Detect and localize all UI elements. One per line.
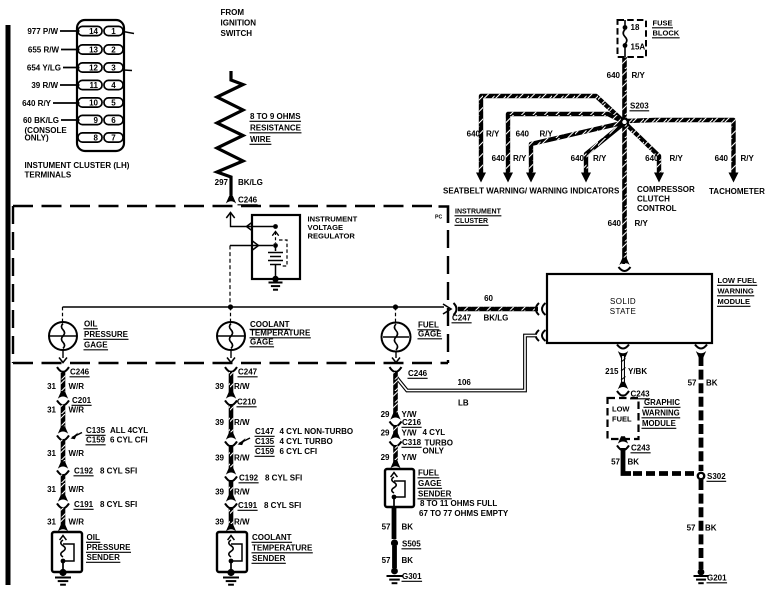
svg-text:BK: BK: [706, 379, 718, 388]
svg-text:SWITCH: SWITCH: [221, 29, 253, 38]
wire S203 branch 2 to warning indicators: [508, 114, 622, 173]
svg-text:39: 39: [215, 518, 224, 527]
svg-text:OIL: OIL: [84, 320, 97, 329]
gauge supply bus wire: [63, 306, 445, 308]
wire fuel gage to cluster boundary: [395, 351, 397, 358]
wire 57 BK S505 to ground G301: [392, 546, 397, 568]
svg-text:8 CYL SFI: 8 CYL SFI: [100, 467, 137, 476]
pin 3: [104, 63, 123, 72]
svg-text:INSTUMENT CLUSTER (LH): INSTUMENT CLUSTER (LH): [25, 161, 130, 170]
svg-text:BK: BK: [402, 523, 414, 532]
svg-text:R/Y: R/Y: [540, 130, 554, 139]
svg-text:12: 12: [89, 64, 98, 73]
svg-text:640: 640: [607, 71, 621, 80]
svg-text:C210: C210: [237, 398, 257, 407]
svg-text:SENDER: SENDER: [418, 490, 452, 499]
svg-text:29: 29: [381, 453, 390, 462]
wire 57 BK graphic module to splice S302: [623, 448, 631, 474]
svg-text:ONLY): ONLY): [25, 134, 49, 143]
svg-text:C246: C246: [238, 196, 258, 205]
svg-text:R/Y: R/Y: [632, 71, 646, 80]
pin 13: [78, 45, 102, 54]
svg-text:FUEL: FUEL: [612, 415, 632, 424]
pin 10: [78, 98, 102, 107]
wire 39 R/W segment 3: [229, 446, 234, 471]
connector C192 (oil): [58, 461, 68, 469]
regulator ground: [272, 276, 278, 282]
svg-text:57: 57: [687, 524, 696, 533]
pin 11: [78, 80, 102, 89]
svg-text:C247: C247: [452, 314, 472, 323]
svg-text:57: 57: [611, 458, 620, 467]
wire stub 39 R/W: [60, 84, 80, 86]
wire S203 branch 5 to compressor clutch control: [626, 124, 659, 173]
svg-text:57: 57: [382, 523, 391, 532]
svg-text:R/W: R/W: [234, 454, 250, 463]
svg-text:5: 5: [111, 99, 116, 108]
svg-text:R/W: R/W: [234, 518, 250, 527]
svg-text:GAGE: GAGE: [84, 341, 108, 350]
pin 7: [104, 133, 123, 142]
regulator upper contact: [247, 222, 253, 231]
arrow to warning indicators: [503, 173, 513, 183]
connector C246 (fuel gage lead): [390, 367, 402, 372]
svg-text:39: 39: [215, 454, 224, 463]
svg-text:640: 640: [467, 130, 481, 139]
svg-text:R/W: R/W: [234, 418, 250, 427]
svg-text:S203: S203: [630, 102, 649, 111]
connector C247: cluster boundary to module wire: [443, 304, 451, 314]
svg-text:9: 9: [94, 116, 99, 125]
wire 640 R/Y S203 to solid state module: [622, 124, 627, 264]
svg-text:W/R: W/R: [69, 406, 85, 415]
svg-text:C192: C192: [74, 467, 94, 476]
svg-text:W/R: W/R: [69, 485, 85, 494]
svg-text:R/Y: R/Y: [593, 154, 607, 163]
svg-text:SEATBELT WARNING/ WARNING INDI: SEATBELT WARNING/ WARNING INDICATORS: [443, 187, 620, 196]
svg-text:Y/W: Y/W: [402, 453, 418, 462]
svg-text:8: 8: [94, 134, 99, 143]
wire 60 BK/LG to solid state module: [458, 307, 538, 312]
regulator bimetal dashed linkage: [279, 240, 287, 266]
pin 6: [104, 115, 123, 124]
svg-text:S505: S505: [402, 540, 421, 549]
arrow to compressor clutch control: [654, 173, 664, 183]
svg-text:RESISTANCE: RESISTANCE: [250, 124, 302, 133]
connector C318 turbo only: [390, 432, 400, 440]
svg-text:39: 39: [215, 382, 224, 391]
svg-text:C318: C318: [402, 438, 422, 447]
wire bus drop to oil pressure gage (dashed): [62, 307, 64, 322]
svg-text:CLUTCH: CLUTCH: [637, 195, 670, 204]
wire 215 Y/BK module to C243 (hollow): [618, 351, 628, 359]
fuse block dashed box: [618, 20, 647, 57]
svg-text:R/Y: R/Y: [635, 219, 649, 228]
svg-text:640 R/Y: 640 R/Y: [22, 99, 52, 108]
meter M3: fuel gage: [382, 323, 411, 352]
svg-text:31: 31: [47, 485, 56, 494]
svg-text:57: 57: [688, 379, 697, 388]
connector C243 (upper): [618, 382, 628, 390]
wire S203 branch 4: [586, 124, 623, 173]
svg-text:8 TO 9 OHMS: 8 TO 9 OHMS: [250, 112, 301, 121]
regulator moving contact arm (dashed, arrow up): [272, 232, 278, 236]
svg-text:3: 3: [111, 64, 116, 73]
wire 39 R/W segment 4: [229, 481, 234, 498]
svg-text:39 R/W: 39 R/W: [31, 81, 58, 90]
connector C247 (coolant lead): [225, 367, 237, 372]
svg-text:FUEL: FUEL: [418, 469, 439, 478]
wire from C246 into voltage regulator: [226, 213, 234, 219]
svg-text:PC: PC: [435, 215, 442, 221]
pin 5: [104, 98, 123, 107]
wire 57 BK fuel sender to splice S505: [392, 507, 397, 539]
svg-text:31: 31: [47, 449, 56, 458]
junction node: bus to fuel gauge: [393, 304, 398, 309]
svg-text:29: 29: [381, 429, 390, 438]
svg-text:BK: BK: [402, 556, 414, 565]
svg-text:R/Y: R/Y: [670, 154, 684, 163]
instrument cluster dashed boundary box: [13, 205, 432, 207]
wire 57 BK module to splice S302: [696, 351, 706, 359]
svg-text:MODULE: MODULE: [642, 419, 676, 428]
svg-text:C246: C246: [70, 368, 90, 377]
svg-text:WARNING: WARNING: [718, 287, 754, 296]
svg-text:8 CYL SFI: 8 CYL SFI: [264, 501, 301, 510]
svg-text:14: 14: [89, 27, 98, 36]
svg-text:ALL 4CYL: ALL 4CYL: [110, 426, 148, 435]
wire stub 60 BK/LG: [61, 119, 80, 121]
sender RT2: coolant temperature sender: [226, 524, 236, 532]
svg-text:R/Y: R/Y: [486, 130, 500, 139]
ground G301: [391, 568, 398, 575]
pin 14: [78, 26, 102, 35]
svg-text:C246: C246: [408, 369, 428, 378]
svg-text:60 BK/LG: 60 BK/LG: [23, 116, 59, 125]
svg-text:GAGE: GAGE: [418, 330, 442, 339]
svg-text:W/R: W/R: [69, 449, 85, 458]
wire 29 Y/W segment 2: [393, 426, 398, 436]
module bottom output socket (215 Y/BK): [617, 345, 629, 349]
connector C201: [58, 391, 68, 399]
wire 31 W/R segment 5: [61, 508, 66, 529]
svg-text:7: 7: [111, 134, 116, 143]
svg-text:IGNITION: IGNITION: [221, 19, 257, 28]
wire 31 W/R segment 4: [61, 475, 66, 498]
svg-text:SENDER: SENDER: [87, 553, 121, 562]
wire S203 branch 3: [531, 123, 622, 173]
svg-text:31: 31: [47, 406, 56, 415]
svg-text:C243: C243: [631, 444, 651, 453]
svg-text:W/R: W/R: [69, 382, 85, 391]
module bottom-right output socket: [695, 345, 707, 349]
svg-text:C191: C191: [74, 500, 94, 509]
svg-text:8 CYL SFI: 8 CYL SFI: [100, 500, 137, 509]
wire 29 Y/W segment 1: [393, 372, 398, 415]
connector at module top: [619, 258, 629, 266]
svg-text:29: 29: [381, 410, 390, 419]
svg-text:FUEL: FUEL: [418, 321, 439, 330]
wire oil gage to cluster boundary: [62, 350, 64, 358]
ground at oil pressure sender: [59, 569, 66, 576]
svg-text:R/Y: R/Y: [513, 154, 527, 163]
fuse F1: 15A fuse (circuit 18): [624, 20, 626, 26]
splice S302: [698, 473, 704, 479]
wire 39 R/W segment 1: [229, 372, 234, 394]
wire regulator/bus drop to coolant gage (dashed): [230, 307, 232, 322]
svg-text:6 CYL CFI: 6 CYL CFI: [280, 447, 318, 456]
meter M1: oil pressure gage: [49, 322, 77, 350]
svg-text:57: 57: [382, 556, 391, 565]
svg-text:C201: C201: [72, 396, 92, 405]
wire 39 R/W segment 2: [229, 405, 234, 436]
pin 12: [78, 63, 102, 72]
svg-text:WIRE: WIRE: [250, 135, 272, 144]
sender RT3: fuel gage sender: [390, 461, 400, 469]
svg-text:C135: C135: [86, 426, 106, 435]
svg-text:WARNING: WARNING: [642, 409, 680, 418]
pin 4: [104, 80, 123, 89]
module U3: low fuel graphic warning module (dashed): [608, 398, 639, 439]
svg-text:STATE: STATE: [610, 307, 637, 316]
svg-text:C159: C159: [255, 447, 275, 456]
ground at coolant temperature sender: [227, 569, 234, 576]
pin 9: [78, 115, 102, 124]
connector C243 (lower): [618, 436, 628, 444]
wire 39 R/W segment 5: [229, 508, 234, 529]
svg-text:8 CYL SFI: 8 CYL SFI: [265, 474, 302, 483]
svg-text:39: 39: [215, 488, 224, 497]
wire stub 654 Y/LG: [63, 67, 80, 69]
svg-text:6 CYL CFI: 6 CYL CFI: [110, 436, 148, 445]
svg-text:4 CYL TURBO: 4 CYL TURBO: [280, 437, 333, 446]
wire 31 W/R segment 2: [61, 405, 66, 430]
svg-text:C216: C216: [402, 418, 422, 427]
svg-text:1: 1: [111, 27, 116, 36]
wire S203 branch 1 to seatbelt warning: [481, 96, 622, 173]
svg-text:C191: C191: [238, 501, 258, 510]
svg-text:LOW: LOW: [612, 405, 630, 414]
svg-text:4 CYL: 4 CYL: [423, 428, 446, 437]
connector C191 (oil): [58, 494, 68, 502]
svg-text:4: 4: [111, 81, 116, 90]
svg-text:ONLY: ONLY: [423, 447, 445, 456]
arrow branch 4: [581, 173, 591, 183]
svg-text:4 CYL NON-TURBO: 4 CYL NON-TURBO: [280, 427, 354, 436]
svg-text:60: 60: [484, 294, 493, 303]
svg-text:SOLID: SOLID: [610, 297, 636, 306]
connector C216: [390, 412, 400, 420]
svg-text:R/Y: R/Y: [741, 154, 755, 163]
svg-text:FROM: FROM: [221, 8, 245, 17]
splice S203: [621, 119, 628, 126]
svg-text:W/R: W/R: [69, 518, 85, 527]
regulator U1: instrument voltage regulator box: [252, 215, 300, 279]
wire 106 LB fuel sender feed to module (hollow): [397, 336, 538, 391]
svg-text:TERMINALS: TERMINALS: [25, 171, 72, 180]
pin 8: [78, 133, 102, 142]
label C147 / C135 / C159 variants: [239, 438, 250, 444]
svg-text:FUSE: FUSE: [653, 19, 673, 28]
ground G201: [698, 569, 705, 576]
svg-text:TACHOMETER: TACHOMETER: [709, 187, 765, 196]
svg-text:R/W: R/W: [234, 488, 250, 497]
svg-text:Y/BK: Y/BK: [628, 367, 647, 376]
svg-text:39: 39: [215, 418, 224, 427]
svg-text:11: 11: [90, 81, 99, 90]
meter M2: coolant temperature gage: [217, 322, 245, 350]
connector C135/C159 (oil): [58, 426, 68, 434]
wire 29 Y/W segment 3: [393, 446, 398, 466]
svg-text:8 TO 11 OHMS FULL: 8 TO 11 OHMS FULL: [420, 499, 497, 508]
svg-text:BK: BK: [628, 458, 640, 467]
svg-text:10: 10: [89, 99, 98, 108]
resistor: 8 to 9 ohms resistance wire: [217, 71, 243, 197]
connector block: instrument cluster (LH) terminals: [77, 20, 124, 151]
sender RT1: oil pressure sender: [58, 524, 68, 532]
svg-text:OIL: OIL: [87, 533, 100, 542]
svg-text:977 P/W: 977 P/W: [27, 27, 58, 36]
svg-text:6: 6: [111, 116, 116, 125]
svg-text:Y/W: Y/W: [402, 429, 418, 438]
svg-text:106: 106: [458, 378, 472, 387]
wire stub 977 P/W: [60, 30, 80, 32]
wire stub 640 R/Y: [53, 102, 80, 104]
connector C147/C135/C159 (coolant): [226, 432, 236, 440]
wire coolant gage to cluster boundary: [230, 350, 232, 358]
wire stub right of pin 1: [123, 32, 134, 34]
svg-text:G201: G201: [707, 574, 727, 583]
wire S203 branch 6 to tachometer: [626, 120, 734, 173]
connector C246 at cluster boundary (resistance wire): [226, 196, 236, 204]
svg-text:18: 18: [631, 23, 640, 32]
svg-text:297: 297: [215, 178, 229, 187]
svg-text:C147: C147: [255, 427, 275, 436]
regulator lower contact: [273, 243, 278, 248]
svg-text:2: 2: [111, 46, 116, 55]
svg-text:PRESSURE: PRESSURE: [84, 330, 129, 339]
label C135 ALL 4CYL / C159 6 CYL CFI: [72, 433, 82, 438]
svg-text:CONTROL: CONTROL: [637, 204, 677, 213]
svg-text:BK/LG: BK/LG: [238, 178, 263, 187]
pin 1: [104, 26, 123, 35]
connector C210: [226, 391, 236, 399]
svg-text:67 TO 77 OHMS EMPTY: 67 TO 77 OHMS EMPTY: [419, 509, 509, 518]
wire 640 R/Y fuse block to splice S203: [622, 57, 627, 120]
wire stub right of pin 3: [123, 69, 132, 72]
svg-text:GAGE: GAGE: [418, 479, 442, 488]
svg-text:GRAPHIC: GRAPHIC: [644, 398, 680, 407]
svg-text:640: 640: [608, 219, 622, 228]
arrow to seatbelt warning: [476, 173, 486, 183]
svg-text:COOLANT: COOLANT: [252, 533, 292, 542]
svg-text:C247: C247: [238, 368, 258, 377]
svg-text:PRESSURE: PRESSURE: [87, 543, 132, 552]
connector C192 (coolant): [226, 467, 236, 475]
arrow branch 3: [526, 173, 536, 183]
module U2: solid state low fuel warning module: [547, 274, 712, 343]
svg-text:C135: C135: [255, 437, 275, 446]
svg-text:BLOCK: BLOCK: [653, 29, 680, 38]
regulator heater coil: [268, 247, 283, 277]
svg-text:215: 215: [605, 367, 619, 376]
connector C191 (coolant): [226, 494, 236, 502]
svg-text:BK/LG: BK/LG: [484, 314, 509, 323]
junction node: bus to coolant gauge: [228, 304, 233, 309]
wire 31 W/R segment 1: [61, 372, 66, 394]
svg-text:640: 640: [645, 154, 659, 163]
svg-text:654 Y/LG: 654 Y/LG: [27, 64, 61, 73]
svg-text:REGULATOR: REGULATOR: [308, 232, 356, 241]
svg-text:31: 31: [47, 518, 56, 527]
svg-text:C192: C192: [239, 474, 259, 483]
svg-text:LB: LB: [458, 399, 469, 408]
svg-text:640: 640: [492, 154, 506, 163]
svg-text:31: 31: [47, 382, 56, 391]
svg-text:COMPRESSOR: COMPRESSOR: [637, 185, 695, 194]
svg-text:655 R/W: 655 R/W: [28, 46, 60, 55]
wire bus drop to fuel gage (dashed): [395, 307, 397, 322]
svg-text:CLUSTER: CLUSTER: [455, 218, 488, 225]
svg-text:640: 640: [715, 154, 729, 163]
svg-text:TEMPERATURE: TEMPERATURE: [250, 329, 311, 338]
svg-text:R/W: R/W: [234, 382, 250, 391]
svg-text:INSTRUMENT: INSTRUMENT: [455, 209, 502, 216]
pin 2: [104, 45, 123, 54]
wire 57 BK S302 to ground G201: [699, 480, 704, 569]
wire stub 655 R/W: [61, 49, 80, 51]
svg-text:MODULE: MODULE: [718, 297, 751, 306]
svg-text:TEMPERATURE: TEMPERATURE: [252, 544, 313, 553]
svg-text:640: 640: [516, 130, 530, 139]
splice S505: [391, 539, 398, 546]
svg-text:G301: G301: [402, 572, 422, 581]
wire 31 W/R segment 3: [61, 440, 66, 465]
svg-text:640: 640: [571, 154, 585, 163]
svg-text:SENDER: SENDER: [252, 554, 286, 563]
wire regulator lower contact to gauge bus (dash-dot): [230, 245, 252, 247]
svg-text:C159: C159: [86, 436, 106, 445]
connector C246 (oil pressure lead): [57, 367, 69, 372]
svg-text:LOW FUEL: LOW FUEL: [718, 276, 758, 285]
arrow to tachometer: [729, 173, 739, 183]
svg-text:15A: 15A: [631, 43, 646, 52]
module lower-left input socket (106 LB): [536, 330, 546, 341]
svg-text:BK: BK: [705, 524, 717, 533]
svg-text:GAGE: GAGE: [250, 338, 274, 347]
svg-text:S302: S302: [707, 472, 726, 481]
svg-text:13: 13: [89, 46, 98, 55]
